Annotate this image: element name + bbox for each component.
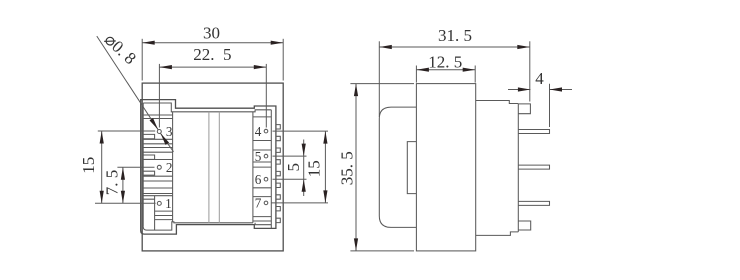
dim 4 right arrow [550, 87, 563, 91]
core lamination side profile [379, 107, 416, 227]
left block divider 11 [143, 193, 172, 195]
dim 30 line [142, 42, 283, 44]
pin 4 hole [264, 129, 268, 133]
right wall tab 5 [276, 171, 280, 175]
dim 15 left top arrow [100, 131, 104, 144]
left block lower divider 2 [155, 215, 173, 217]
pin block side bottom [476, 232, 519, 236]
pin 3 hole [157, 130, 161, 134]
dim 7.5 bottom arrow [121, 191, 125, 204]
svg-text:30: 30 [203, 24, 220, 43]
svg-text:1: 1 [165, 196, 172, 211]
left block divider 7 [143, 159, 172, 161]
right block divider 3 [253, 149, 271, 151]
leader arrow upper [150, 118, 159, 130]
pin block right edge [517, 104, 519, 232]
pin block top mounting tab [518, 104, 530, 114]
leader line to pin 3 [97, 36, 158, 130]
right wall tab 4 [276, 160, 280, 164]
dim 12.5 extension lines [415, 66, 417, 83]
center leg lines (winding) [208, 112, 210, 224]
dim 31.5 line [379, 46, 530, 48]
svg-text:7. 5: 7. 5 [103, 170, 122, 196]
pin block side top [476, 101, 519, 104]
left wall slot tab a [143, 134, 154, 138]
bobbin flange plate [416, 84, 475, 251]
dim 15 left line [101, 131, 103, 203]
right block divider 2 [253, 140, 271, 142]
right block divider 5 [253, 166, 271, 168]
pin 1 side [518, 201, 549, 205]
pin 7 hole [264, 201, 268, 205]
pin 3 side [518, 130, 549, 134]
right block divider 6 [253, 187, 271, 189]
right wall tab 8 [276, 207, 280, 211]
right wall tab 6 [276, 183, 280, 187]
dim 22.5 line [159, 66, 266, 68]
pin 6 hole [264, 177, 268, 181]
dim 4 left arrow [518, 87, 531, 91]
left block divider 1 [143, 114, 172, 116]
left block lower divider 1 [155, 210, 173, 212]
dim 12.5 right arrow [463, 68, 476, 72]
left wall slot tab b [143, 155, 154, 159]
svg-text:5: 5 [255, 149, 262, 164]
dim 22.5 left arrow [159, 65, 172, 69]
dim 30 left arrow [142, 41, 155, 45]
bobbin inner contour bottom [143, 222, 271, 230]
left block divider 12 [143, 195, 172, 197]
dim 15 right bottom arrow [323, 190, 327, 203]
dim 5 top arrow [302, 144, 306, 157]
dim 15 left bottom arrow [100, 191, 104, 204]
svg-text:15: 15 [79, 157, 98, 174]
left block pin1 slot tab [143, 196, 154, 230]
svg-text:4: 4 [255, 124, 262, 139]
dim 30 right arrow [271, 41, 284, 45]
pin 1 hole [157, 201, 161, 205]
core outline (front view outer rectangle) [142, 83, 283, 251]
dim 7.5 extension line [117, 166, 154, 168]
left block divider 9 [143, 180, 172, 182]
right wall tab 1 [276, 125, 280, 129]
right pin-block left wall [252, 112, 254, 223]
dim 35.5 top arrow [354, 84, 358, 97]
dim 35.5 line [355, 84, 357, 251]
svg-text:4: 4 [535, 69, 544, 88]
dim 5 extension lines [273, 155, 307, 157]
left block divider 5 [143, 147, 172, 149]
core window side notch [407, 142, 416, 194]
dim 12.5 line [416, 69, 475, 71]
right block divider 7 [253, 196, 271, 198]
svg-text:12. 5: 12. 5 [428, 53, 462, 72]
svg-text:2: 2 [166, 160, 173, 175]
dim 5 bottom arrow [302, 179, 306, 192]
bobbin left wall inner line [142, 103, 144, 227]
leader arrow lower [161, 133, 170, 145]
right block divider 1 [253, 116, 271, 118]
bobbin outer contour [141, 100, 276, 235]
dim 35.5 bottom arrow [354, 238, 358, 251]
dim 7.5 line [122, 167, 124, 203]
svg-text:3: 3 [166, 124, 173, 139]
svg-text:⌀0. 8: ⌀0. 8 [101, 30, 140, 68]
svg-text:35. 5: 35. 5 [338, 151, 357, 185]
dim 31.5 extension lines [378, 41, 380, 117]
dim 4 lines (arrows outside) [508, 89, 530, 91]
pin 2 hole [157, 165, 161, 169]
pin block bottom mounting tab [518, 221, 530, 230]
left block divider 8 [143, 175, 172, 177]
left block divider 10 [143, 187, 172, 189]
dim 15 right top arrow [323, 131, 327, 144]
svg-text:31. 5: 31. 5 [438, 26, 472, 45]
dim 12.5 left arrow [416, 68, 429, 72]
dim 35.5 extension lines [350, 83, 414, 85]
dim 4 extension line [549, 84, 551, 127]
left wall slot tab c [143, 171, 154, 175]
right wall tab 7 [276, 195, 280, 199]
svg-text:7: 7 [255, 196, 262, 211]
dim 22.5 extension lines [158, 64, 160, 128]
right wall tab 2 [276, 136, 280, 140]
svg-text:15: 15 [305, 160, 324, 177]
left block divider 3 [143, 138, 172, 140]
pin 5 hole [264, 154, 268, 158]
right pin-block right inner wall [270, 110, 272, 229]
dim 15 right line [324, 131, 326, 203]
svg-text:6: 6 [255, 172, 262, 187]
bobbin inner contour top [143, 103, 271, 112]
svg-text:22. 5: 22. 5 [193, 45, 231, 64]
dim 7.5 top arrow [121, 167, 125, 180]
dim 22.5 right arrow [254, 65, 266, 69]
left block divider 6 [143, 151, 172, 153]
dim 31.5 left arrow [379, 45, 392, 49]
right block divider 8 [253, 216, 271, 218]
left block lower divider 3 [155, 219, 173, 221]
svg-text:5: 5 [284, 163, 303, 172]
pin 2 side [518, 165, 549, 169]
dim 31.5 right arrow [517, 45, 530, 49]
right wall tab 9 [276, 218, 280, 222]
dim 30 extension lines [141, 39, 143, 81]
dim 15 left extension lines [98, 130, 155, 132]
right block divider 4 [253, 161, 271, 163]
dim 5 line [303, 140, 305, 197]
left pin-block right edge [172, 112, 174, 222]
left block divider 2 [143, 118, 172, 120]
dim 15 right extension lines [273, 130, 329, 132]
right wall tab 3 [276, 148, 280, 152]
right block divider 9 [253, 220, 271, 222]
left block divider 4 [143, 143, 172, 145]
